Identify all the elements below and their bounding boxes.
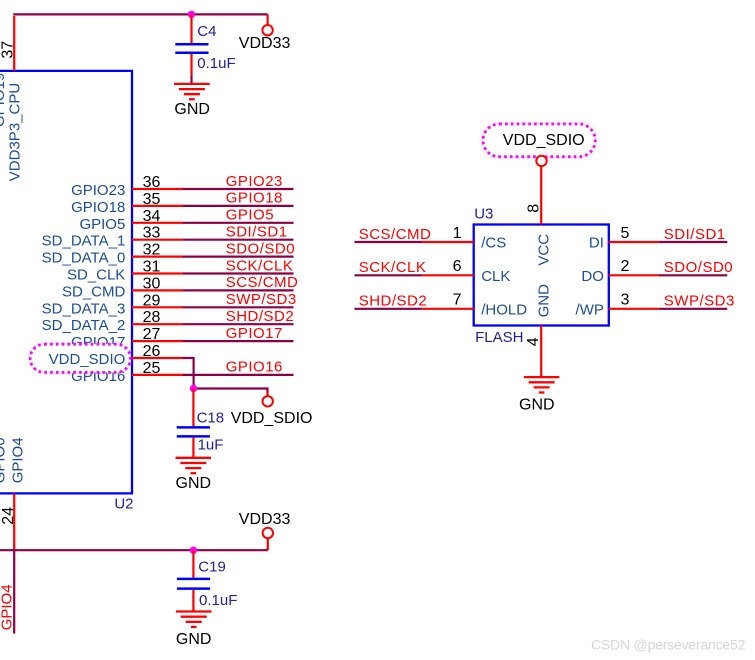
pin 27 GPIO17 stub bbox=[132, 340, 183, 342]
svg-text:SCS/CMD: SCS/CMD bbox=[359, 226, 432, 243]
svg-text:SD_DATA_1: SD_DATA_1 bbox=[42, 233, 126, 250]
svg-text:GND: GND bbox=[176, 475, 212, 492]
pin 33 SD_DATA_1 stub bbox=[132, 239, 183, 241]
wire C19 top lead bbox=[192, 550, 194, 578]
wire net GPIO17 bbox=[183, 340, 294, 342]
wire VDD33 top net bbox=[13, 13, 267, 15]
wire net SDO/SD0 bbox=[183, 256, 294, 258]
svg-text:SCK/CLK: SCK/CLK bbox=[226, 257, 294, 274]
IC U2 ESP32 CPU block outline bbox=[0, 71, 132, 494]
svg-text:GPIO5: GPIO5 bbox=[79, 216, 125, 233]
wire net SDI/SD1 bbox=[183, 239, 294, 241]
svg-text:SD_DATA_3: SD_DATA_3 bbox=[42, 300, 126, 317]
wire net SCS/CMD bbox=[183, 289, 294, 291]
svg-text:28: 28 bbox=[143, 309, 161, 326]
svg-text:32: 32 bbox=[143, 242, 161, 259]
svg-text:26: 26 bbox=[143, 343, 161, 360]
svg-text:34: 34 bbox=[143, 208, 161, 225]
svg-text:SWP/SD3: SWP/SD3 bbox=[664, 293, 735, 310]
pin 5 stub bbox=[609, 241, 659, 243]
pin 36 GPIO23 stub bbox=[132, 188, 183, 190]
svg-text:GPIO18: GPIO18 bbox=[226, 190, 283, 207]
svg-text:5: 5 bbox=[621, 225, 630, 242]
svg-text:SDO/SD0: SDO/SD0 bbox=[664, 259, 733, 276]
svg-text:VCC: VCC bbox=[536, 234, 553, 266]
wire net SHD/SD2 bbox=[183, 323, 294, 325]
pin 1 stub bbox=[422, 241, 474, 243]
junction VDD_SDIO node bbox=[194, 389, 268, 392]
svg-text:25: 25 bbox=[143, 360, 161, 377]
wire net SCS/CMD bbox=[355, 241, 423, 243]
svg-text:27: 27 bbox=[143, 326, 161, 343]
svg-text:24: 24 bbox=[0, 507, 17, 525]
pin 37 stub bbox=[13, 16, 15, 71]
svg-text:0.1uF: 0.1uF bbox=[199, 592, 237, 609]
svg-text:C19: C19 bbox=[198, 558, 226, 575]
svg-text:GPIO18: GPIO18 bbox=[71, 199, 125, 216]
svg-text:VDD3P3_CPU: VDD3P3_CPU bbox=[7, 83, 24, 181]
svg-text:SHD/SD2: SHD/SD2 bbox=[226, 308, 295, 325]
svg-text:VDD33: VDD33 bbox=[239, 511, 291, 528]
svg-text:1: 1 bbox=[453, 225, 462, 242]
junction C19 node bbox=[190, 547, 197, 554]
wire bottom VDD33 net bbox=[0, 549, 268, 551]
wire C18 bottom lead bbox=[192, 438, 194, 458]
svg-text:SDI/SD1: SDI/SD1 bbox=[664, 226, 726, 243]
svg-text:4: 4 bbox=[525, 337, 542, 346]
pin 7 stub bbox=[422, 308, 474, 310]
svg-text:U2: U2 bbox=[114, 495, 133, 512]
svg-text:DO: DO bbox=[581, 268, 604, 285]
svg-text:7: 7 bbox=[453, 292, 462, 309]
wire net GPIO18 bbox=[183, 205, 294, 207]
svg-text:SCS/CMD: SCS/CMD bbox=[226, 274, 299, 291]
pin 28 SD_DATA_2 stub bbox=[132, 323, 183, 325]
svg-text:35: 35 bbox=[143, 191, 161, 208]
pin 6 stub bbox=[422, 274, 474, 276]
svg-text:6: 6 bbox=[453, 258, 462, 275]
pin 24 stub bbox=[13, 493, 15, 550]
svg-text:GPIO16: GPIO16 bbox=[226, 359, 283, 376]
ground symbol C4 bbox=[174, 83, 210, 85]
wire C4 top lead bbox=[190, 14, 192, 43]
wire net SDO/SD0 bbox=[659, 274, 727, 276]
wire C18 top lead bbox=[192, 389, 194, 427]
svg-text:U3: U3 bbox=[474, 205, 493, 222]
wire net GPIO5 bbox=[183, 222, 294, 224]
svg-text:VDD_SDIO: VDD_SDIO bbox=[49, 351, 126, 368]
wire net SWP/SD3 bbox=[659, 308, 727, 310]
svg-text:CSDN @perseverance52: CSDN @perseverance52 bbox=[591, 637, 746, 653]
wire net SHD/SD2 bbox=[355, 308, 423, 310]
svg-text:SHD/SD2: SHD/SD2 bbox=[359, 293, 428, 310]
svg-text:/CS: /CS bbox=[481, 235, 506, 252]
svg-text:GPIO17: GPIO17 bbox=[226, 325, 283, 342]
ground symbol C18 bbox=[176, 457, 212, 459]
junction C4 node bbox=[188, 11, 195, 18]
svg-text:SD_DATA_0: SD_DATA_0 bbox=[42, 250, 126, 267]
svg-text:SWP/SD3: SWP/SD3 bbox=[226, 291, 297, 308]
capacitor C4 bbox=[175, 43, 208, 46]
wire net SWP/SD3 bbox=[183, 306, 294, 308]
pin 34 GPIO5 stub bbox=[132, 222, 183, 224]
svg-text:CLK: CLK bbox=[481, 268, 510, 285]
svg-text:37: 37 bbox=[0, 41, 16, 59]
svg-text:8: 8 bbox=[526, 204, 543, 213]
power flag VDD_SDIO circle bbox=[263, 396, 273, 406]
wire C4 bottom lead bbox=[190, 54, 192, 76]
svg-text:/WP: /WP bbox=[576, 301, 604, 318]
svg-text:GND: GND bbox=[176, 631, 212, 648]
ground symbol C19 bbox=[176, 610, 212, 612]
pin 31 SD_CLK stub bbox=[132, 272, 183, 274]
svg-text:GPIO23: GPIO23 bbox=[226, 173, 283, 190]
svg-text:0.1uF: 0.1uF bbox=[197, 55, 235, 72]
svg-text:GPIO4: GPIO4 bbox=[0, 584, 16, 630]
highlight oval VDD_SDIO (U3 top) bbox=[483, 124, 595, 157]
wire VDD33 bottom riser bbox=[267, 538, 269, 550]
wire net GPIO23 bbox=[183, 188, 294, 190]
wire C19 bottom lead bbox=[192, 590, 194, 612]
svg-text:SD_DATA_2: SD_DATA_2 bbox=[42, 317, 126, 334]
power flag VDD33 bottom circle bbox=[263, 528, 273, 538]
capacitor C18 bbox=[177, 426, 210, 429]
pin 30 SD_CMD stub bbox=[132, 289, 183, 291]
highlight oval VDD_SDIO (U2 pin name) bbox=[30, 344, 130, 372]
ground symbol U3 bbox=[524, 376, 560, 378]
svg-text:GPIO4: GPIO4 bbox=[9, 437, 26, 483]
IC U3 flash outline bbox=[474, 225, 609, 326]
svg-text:2: 2 bbox=[621, 258, 630, 275]
capacitor C19 bbox=[177, 578, 210, 581]
svg-text:VDD_SDIO: VDD_SDIO bbox=[231, 410, 313, 427]
svg-text:3: 3 bbox=[621, 292, 630, 309]
wire net GPIO4 drop bbox=[13, 550, 15, 633]
pin 26 VDD_SDIO stub bbox=[132, 357, 183, 359]
pin 25 GPIO16 stub bbox=[132, 374, 183, 376]
pin 2 stub bbox=[609, 274, 659, 276]
wire VDD33 riser bbox=[267, 14, 269, 25]
svg-text:VDD33: VDD33 bbox=[239, 35, 291, 52]
pin 29 SD_DATA_3 stub bbox=[132, 306, 183, 308]
pin 3 stub bbox=[609, 308, 659, 310]
svg-text:GND: GND bbox=[536, 284, 553, 318]
power flag VDD33 top circle bbox=[262, 25, 272, 35]
svg-text:29: 29 bbox=[143, 292, 161, 309]
svg-text:GPIO23: GPIO23 bbox=[71, 182, 125, 199]
svg-text:SCK/CLK: SCK/CLK bbox=[359, 259, 427, 276]
pin 32 SD_DATA_0 stub bbox=[132, 256, 183, 258]
svg-text:36: 36 bbox=[143, 174, 161, 191]
svg-text:30: 30 bbox=[143, 275, 161, 292]
pin 35 GPIO18 stub bbox=[132, 205, 183, 207]
svg-text:1uF: 1uF bbox=[198, 436, 224, 453]
svg-text:GND: GND bbox=[174, 101, 210, 118]
pin 4 GND stub bbox=[540, 326, 542, 378]
power flag VDD_SDIO U3 circle bbox=[536, 156, 546, 166]
wire net SDI/SD1 bbox=[659, 241, 727, 243]
svg-text:GPIO5: GPIO5 bbox=[226, 207, 274, 224]
svg-text:VDD_SDIO: VDD_SDIO bbox=[503, 132, 585, 149]
svg-text:GND: GND bbox=[519, 397, 555, 414]
svg-text:C4: C4 bbox=[197, 23, 216, 40]
wire net SCK/CLK bbox=[183, 272, 294, 274]
pin 8 VCC stub bbox=[540, 166, 542, 225]
wire pin26 VDD_SDIO to junction bbox=[183, 358, 194, 389]
svg-text:GPIO19: GPIO19 bbox=[0, 73, 8, 127]
wire net GPIO16 bbox=[183, 374, 294, 376]
svg-text:33: 33 bbox=[143, 225, 161, 242]
svg-text:SDO/SD0: SDO/SD0 bbox=[226, 240, 295, 257]
svg-text:GPIO0: GPIO0 bbox=[0, 437, 9, 483]
svg-text:SDI/SD1: SDI/SD1 bbox=[226, 224, 288, 241]
svg-text:SD_CLK: SD_CLK bbox=[67, 267, 125, 284]
svg-text:C18: C18 bbox=[197, 410, 225, 427]
svg-text:31: 31 bbox=[143, 259, 161, 276]
svg-text:DI: DI bbox=[589, 235, 604, 252]
svg-text:SD_CMD: SD_CMD bbox=[62, 283, 126, 300]
svg-text:/HOLD: /HOLD bbox=[481, 301, 527, 318]
wire net SCK/CLK bbox=[355, 274, 423, 276]
svg-text:FLASH: FLASH bbox=[475, 329, 523, 346]
